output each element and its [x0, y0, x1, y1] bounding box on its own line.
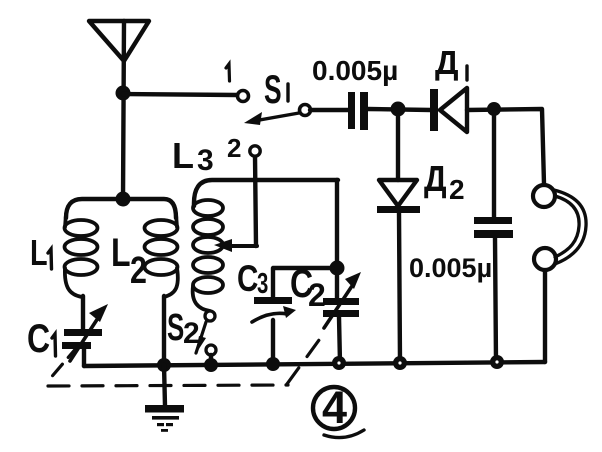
node bus S2 [204, 358, 218, 372]
switch S1 blade arrow [244, 112, 299, 125]
svg-text:Д: Д [424, 159, 447, 199]
svg-text:0.005µ: 0.005µ [409, 253, 492, 283]
node right junction [487, 102, 501, 116]
node bus L2 [157, 358, 171, 372]
svg-text:2: 2 [308, 277, 326, 313]
node D2 branch junction [391, 102, 406, 117]
diode D2 triangle [379, 180, 417, 206]
svg-text:L: L [30, 232, 48, 273]
label 1 contact [226, 64, 230, 81]
antenna [89, 21, 149, 61]
node antenna junction [116, 86, 131, 101]
node bus C3 [266, 357, 280, 371]
wire antenna vertical [123, 21, 124, 199]
wire C2 to bus [339, 317, 340, 363]
wire gang dashed C1 to C2 [48, 336, 322, 386]
figure number 4 circle [313, 387, 364, 438]
node bus D2 [393, 356, 407, 370]
svg-text:2: 2 [227, 133, 241, 163]
wire C3 top to junction [273, 268, 332, 297]
wire junction to capacitor right [492, 116, 496, 218]
wire capacitor to diode D1 [368, 109, 431, 110]
svg-text:S: S [264, 68, 282, 113]
switch S2 blade [195, 322, 206, 355]
wire capacitor right to bus [495, 238, 496, 362]
capacitor C1 arrow [70, 304, 108, 361]
node C3 C2 junction [330, 261, 345, 276]
wire S2 to bus stub [209, 355, 213, 361]
wire antenna to S1 contact 1 [123, 94, 237, 95]
label C1 [27, 316, 56, 361]
svg-text:2: 2 [449, 174, 465, 205]
svg-text:C: C [27, 316, 50, 361]
wire C1 to bus [82, 349, 86, 366]
coil L1 [65, 214, 98, 297]
capacitor C3 top plate [254, 297, 292, 304]
coil L3 [193, 200, 223, 311]
capacitor C3 curved plate [252, 306, 296, 322]
coil L3 tap arrow [214, 239, 257, 252]
svg-text:3: 3 [197, 144, 214, 177]
label D1 [435, 44, 467, 81]
node bus capacitor [490, 355, 504, 369]
diode D1 cathode bar [430, 89, 438, 131]
wire headphones to bus [543, 271, 547, 362]
capacitor C2 arrow [324, 272, 361, 328]
wire D1 to headphones corner [467, 109, 544, 184]
svg-text:C: C [237, 259, 258, 300]
switch S1 contact 2 [250, 146, 260, 156]
svg-text:S: S [167, 306, 184, 348]
wire ground bus [84, 362, 545, 366]
node bus C2 [332, 356, 346, 370]
switch S2 contact top [205, 311, 215, 321]
diode D1 triangle [440, 88, 467, 132]
label C2 [290, 261, 326, 313]
coil L2 [145, 214, 178, 297]
svg-text:3: 3 [257, 268, 268, 300]
capacitor C2 plates [323, 298, 359, 317]
capacitor 0.005u top plates [348, 92, 368, 130]
switch S1 wiper pivot [300, 105, 311, 116]
label S1 [264, 68, 288, 113]
wire L1 to C1 [81, 296, 85, 329]
svg-text:2: 2 [130, 250, 147, 292]
label L3 [172, 135, 214, 177]
switch S1 contact 1 [238, 91, 249, 102]
wire L3 top to C2 junction [335, 180, 339, 298]
wire D2 to bus [399, 213, 400, 363]
headphones headband [554, 190, 586, 264]
svg-text:2: 2 [183, 317, 200, 350]
switch S2 contact bottom [206, 345, 216, 355]
label L2 [111, 230, 147, 292]
wire junction to D2 [396, 116, 400, 180]
ground [145, 365, 184, 432]
svg-text:L: L [111, 230, 131, 275]
label L1 [30, 232, 52, 273]
wire coil L3 top [194, 180, 338, 206]
diode D2 cathode bar [377, 206, 420, 213]
label S2 [167, 306, 200, 350]
headphones earpiece bottom [534, 248, 556, 270]
label C3 [237, 259, 268, 300]
svg-text:0.005µ: 0.005µ [312, 55, 398, 86]
svg-text:Д: Д [435, 44, 459, 81]
wire coil L1 L2 top [66, 199, 176, 218]
wire C3 bottom to bus [271, 320, 275, 364]
label D2 [424, 159, 465, 205]
node coil top junction [116, 192, 131, 207]
svg-text:4: 4 [322, 382, 347, 433]
headphones earpiece top [533, 185, 555, 207]
wire contact 2 down [255, 156, 256, 246]
svg-text:L: L [172, 135, 194, 176]
capacitor 0.005u right plates [474, 217, 513, 238]
wire L2 to bus [162, 296, 166, 365]
capacitor C1 plates [62, 329, 102, 349]
wire S1 to capacitor [310, 108, 349, 112]
